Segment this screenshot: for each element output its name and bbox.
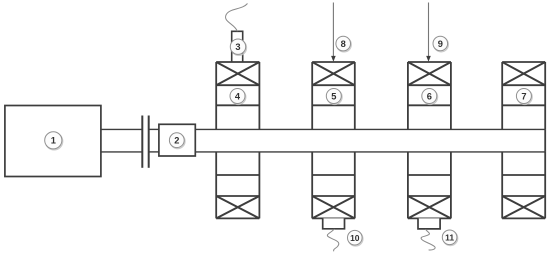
- svg-text:3: 3: [235, 42, 240, 52]
- svg-text:6: 6: [427, 91, 432, 101]
- svg-text:11: 11: [445, 233, 454, 243]
- svg-text:4: 4: [235, 91, 241, 101]
- svg-text:1: 1: [51, 136, 56, 146]
- svg-text:5: 5: [331, 91, 336, 101]
- svg-text:10: 10: [350, 233, 360, 243]
- svg-text:8: 8: [341, 39, 346, 49]
- svg-text:9: 9: [438, 39, 443, 49]
- svg-text:7: 7: [521, 91, 526, 101]
- svg-text:2: 2: [174, 136, 179, 146]
